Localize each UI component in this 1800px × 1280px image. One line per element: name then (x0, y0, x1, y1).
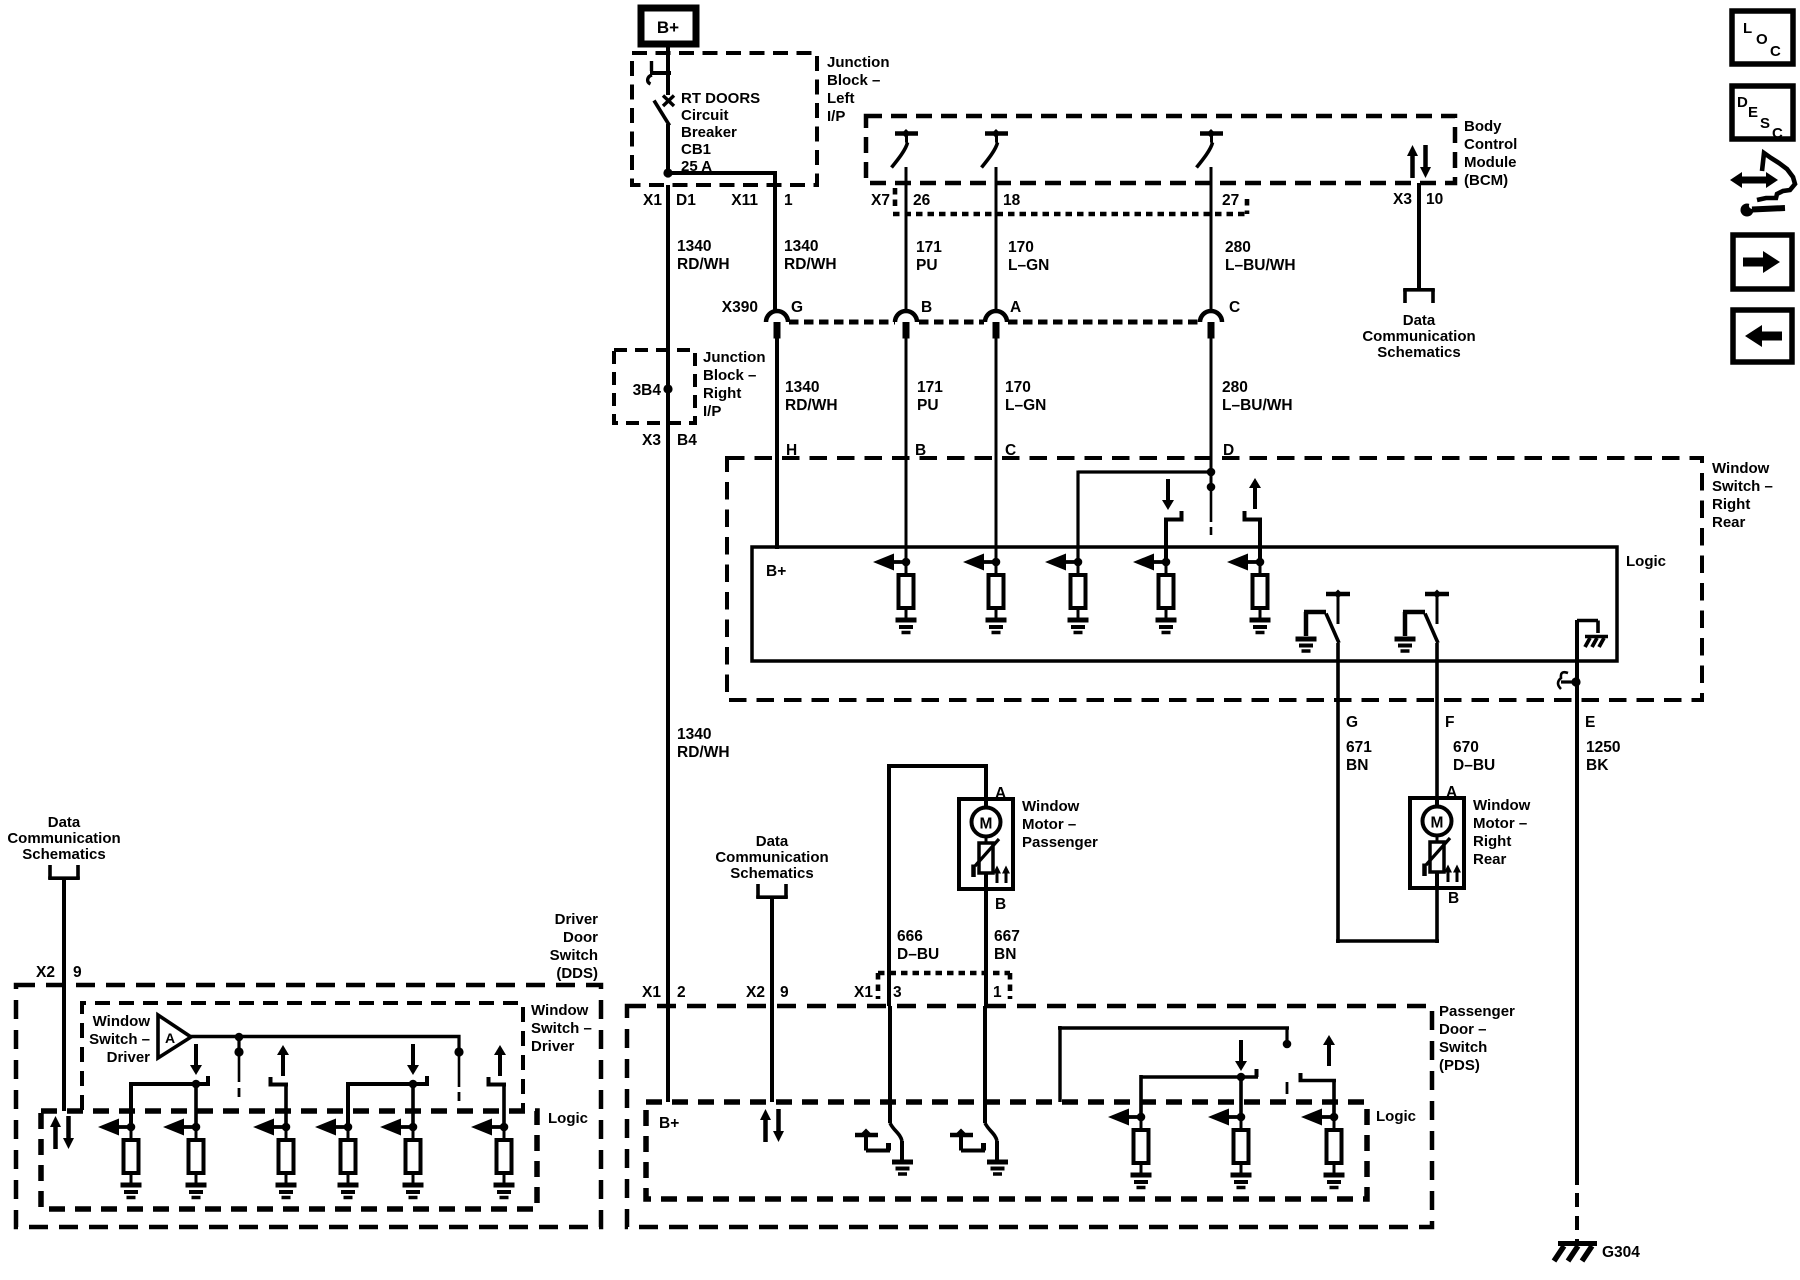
PDS connector labels X1 2 X2 9 X1 3 1 (642, 984, 1002, 1001)
window motor right rear (1410, 798, 1464, 888)
svg-text:Window: Window (93, 1013, 151, 1030)
label 671 BN (1346, 739, 1372, 774)
svg-text:Rear: Rear (1712, 514, 1746, 531)
resistor branch 2 (DDS) (163, 1119, 207, 1198)
wire B+ to circuit breaker CB1 (666, 44, 670, 95)
svg-text:Junction: Junction (703, 349, 766, 366)
svg-text:B4: B4 (677, 432, 697, 449)
wire 171 PU X390 B down (905, 338, 908, 562)
svg-text:B: B (921, 299, 932, 316)
svg-text:C: C (1770, 43, 1781, 60)
resistor branch 5 (DDS) (380, 1119, 424, 1198)
svg-text:PU: PU (916, 257, 938, 274)
svg-text:BN: BN (994, 946, 1016, 963)
off-page bracket serial data (1403, 289, 1435, 303)
data communication schematics (middle) (715, 833, 828, 882)
junction node in junction block (663, 168, 672, 177)
svg-text:Communication: Communication (1362, 328, 1475, 345)
wire 170 L-GN (BCM 18 to X390 A) (995, 167, 998, 312)
down arrow indicator 2 (DDS) (407, 1044, 419, 1075)
resistor branch 3 (PDS) (1301, 1109, 1345, 1188)
window up switch to ground (PDS) (855, 1123, 913, 1174)
chassis ground E inside logic (1577, 621, 1608, 648)
BCM label (1464, 118, 1517, 189)
connector X390 terminal B (895, 311, 917, 339)
svg-text:X390: X390 (722, 299, 758, 316)
svg-text:Junction: Junction (827, 54, 890, 71)
svg-text:Right: Right (1712, 496, 1750, 513)
svg-text:A: A (1446, 784, 1457, 801)
resistor branch 1 (PDS) (1108, 1109, 1152, 1188)
svg-text:X2: X2 (36, 964, 55, 981)
off-page bracket (middle) (756, 884, 788, 898)
svg-text:Door –: Door – (1439, 1021, 1487, 1038)
svg-text:Module: Module (1464, 154, 1517, 171)
svg-text:Switch –: Switch – (1712, 478, 1773, 495)
PDS logic label (1376, 1108, 1416, 1125)
svg-text:A: A (1010, 299, 1021, 316)
junction block right label (703, 349, 766, 420)
data communication schematics label (BCM) (1362, 312, 1475, 361)
svg-text:170: 170 (1008, 239, 1034, 256)
label 170 L-GN top (1008, 239, 1049, 274)
svg-text:Rear: Rear (1473, 851, 1507, 868)
svg-text:Passenger: Passenger (1022, 834, 1098, 851)
svg-text:Control: Control (1464, 136, 1517, 153)
DDS connector labels X2 9 (36, 964, 82, 981)
window switch right rear label (1712, 460, 1773, 531)
label 1340 RD/WH (left) (677, 238, 730, 273)
wire 1340 RD/WH X390 G to window switch H (775, 338, 779, 549)
label 1250 BK (1586, 739, 1620, 774)
data communication schematics (left) (7, 814, 120, 863)
svg-text:Schematics: Schematics (22, 846, 105, 863)
svg-text:X7: X7 (871, 192, 890, 209)
resistor branch B input (873, 554, 917, 633)
svg-text:Data: Data (48, 814, 81, 831)
connector X390 dotted line (789, 320, 1200, 325)
B+ battery feed box (641, 8, 696, 44)
svg-text:Window: Window (1473, 797, 1531, 814)
motor pin labels A B (passenger) (995, 785, 1006, 913)
tap node 1 on bus (234, 1033, 243, 1097)
svg-text:Schematics: Schematics (1377, 344, 1460, 361)
window switch driver label (left) (89, 1013, 150, 1066)
tap node 2 on bus (454, 1035, 463, 1101)
connector X390 terminal G (766, 311, 788, 339)
svg-text:9: 9 (73, 964, 82, 981)
connector X390 terminal A (985, 311, 1007, 339)
passenger door switch label (1439, 1003, 1515, 1074)
svg-text:X3: X3 (1393, 191, 1412, 208)
driver door switch dashed box (16, 985, 601, 1227)
svg-text:I/P: I/P (827, 108, 845, 125)
junction block right I/P dashed box (614, 350, 695, 423)
svg-text:C: C (1772, 125, 1783, 142)
svg-text:(PDS): (PDS) (1439, 1057, 1480, 1074)
svg-text:3: 3 (893, 984, 902, 1001)
svg-text:X11: X11 (731, 192, 758, 209)
svg-text:666: 666 (897, 928, 923, 945)
motor pin labels A B (right rear) (1446, 784, 1459, 907)
resistor branch 3 (DDS) (253, 1119, 297, 1198)
svg-text:Switch: Switch (1439, 1039, 1487, 1056)
svg-text:B+: B+ (659, 1115, 679, 1132)
label 1340 RD/WH (mid run) (677, 726, 730, 761)
switch to ground G output (1296, 590, 1351, 652)
wire branch to X11 pin 1 (668, 171, 775, 312)
pin labels X1 D1 X11 1 (643, 192, 793, 209)
ground G304 (1554, 1244, 1597, 1262)
svg-text:Driver: Driver (555, 911, 599, 928)
switch bar down 1 with taps (131, 1076, 210, 1127)
svg-text:X1: X1 (642, 984, 661, 1001)
DDS logic dashed box (41, 1111, 537, 1209)
svg-text:G304: G304 (1602, 1244, 1640, 1261)
wire CB1 output (666, 124, 670, 176)
BCM X7 connector dotted outline (893, 188, 1247, 214)
PDS feedback jog wire (1058, 1026, 1291, 1102)
svg-text:3B4: 3B4 (633, 382, 662, 399)
wire E out of logic (1575, 620, 1579, 700)
svg-text:Window: Window (1022, 798, 1080, 815)
svg-text:Window: Window (531, 1002, 589, 1019)
label 1340 RD/WH (second row) (785, 379, 838, 414)
resistor branch 2 (PDS) (1208, 1109, 1252, 1188)
nav icon next arrow (1733, 235, 1792, 289)
svg-text:Door: Door (563, 929, 598, 946)
svg-text:BK: BK (1586, 757, 1609, 774)
svg-text:RT DOORS: RT DOORS (681, 90, 760, 107)
svg-text:X1: X1 (854, 984, 873, 1001)
junction block left label (827, 54, 890, 125)
wire D jog to logic input (1078, 471, 1213, 563)
svg-text:B+: B+ (766, 563, 786, 580)
node D wire junction (1207, 468, 1216, 535)
up arrow indicator 1 (DDS) (277, 1045, 289, 1076)
svg-text:Motor –: Motor – (1022, 816, 1076, 833)
window down switch to ground (PDS) (950, 1123, 1008, 1174)
wire 1340 RD/WH long run to PDS (666, 385, 670, 1102)
svg-text:RD/WH: RD/WH (677, 744, 730, 761)
svg-text:1340: 1340 (677, 726, 711, 743)
nav icon back arrow (1733, 310, 1792, 362)
svg-text:Window: Window (1712, 460, 1770, 477)
svg-text:10: 10 (1426, 191, 1443, 208)
DDS logic label (548, 1110, 588, 1127)
svg-text:B+: B+ (657, 18, 679, 37)
svg-text:Logic: Logic (1626, 553, 1666, 570)
resistor branch 1 (DDS) (98, 1119, 142, 1198)
svg-text:Body: Body (1464, 118, 1502, 135)
svg-text:2: 2 (677, 984, 686, 1001)
up arrow window up indicator (1249, 478, 1261, 509)
svg-text:D–BU: D–BU (1453, 757, 1495, 774)
BCM serial data arrows (1407, 145, 1431, 178)
resistor branch C input (963, 554, 1007, 633)
svg-text:1250: 1250 (1586, 739, 1620, 756)
label 1340 RD/WH (X11 run) (784, 238, 837, 273)
svg-text:B: B (995, 896, 1006, 913)
svg-text:B: B (1448, 890, 1459, 907)
switch contact up 2 (DDS) (487, 1077, 507, 1127)
passenger door switch dashed box (627, 1006, 1432, 1227)
svg-text:X2: X2 (746, 984, 765, 1001)
switch contact bar with branch taps (PDS) (1141, 1069, 1258, 1117)
svg-text:1: 1 (784, 192, 793, 209)
svg-text:O: O (1756, 31, 1768, 48)
svg-text:26: 26 (913, 192, 931, 209)
pin labels X3 B4 (642, 432, 697, 449)
svg-text:1340: 1340 (677, 238, 711, 255)
svg-text:Schematics: Schematics (730, 865, 813, 882)
svg-text:Switch –: Switch – (531, 1020, 592, 1037)
resistor branch D input (1045, 554, 1089, 633)
svg-text:Block –: Block – (827, 72, 880, 89)
switch contact down (right rear) (1164, 511, 1184, 562)
label G304 (1602, 1244, 1640, 1261)
svg-text:1: 1 (993, 984, 1002, 1001)
bus wire from amplifier (191, 1035, 461, 1038)
svg-text:9: 9 (780, 984, 789, 1001)
svg-text:Switch –: Switch – (89, 1031, 150, 1048)
window motor right rear label (1473, 797, 1531, 868)
node 3B4 (633, 382, 673, 399)
svg-text:PU: PU (917, 397, 939, 414)
svg-text:A: A (995, 785, 1006, 802)
BCM output driver switch pin 26 (892, 129, 919, 168)
svg-text:L–GN: L–GN (1008, 257, 1049, 274)
svg-text:171: 171 (916, 239, 942, 256)
svg-text:670: 670 (1453, 739, 1479, 756)
nav icon DESC (1732, 86, 1793, 142)
svg-text:Motor –: Motor – (1473, 815, 1527, 832)
down arrow window down indicator (1162, 479, 1174, 510)
wire BCM X3-10 serial data (1417, 183, 1421, 289)
svg-text:D: D (1737, 94, 1748, 111)
svg-text:Breaker: Breaker (681, 124, 737, 141)
label 171 PU (second row) (917, 379, 943, 414)
svg-text:D1: D1 (676, 192, 696, 209)
svg-text:Communication: Communication (7, 830, 120, 847)
label 280 L-BU/WH top (1225, 239, 1296, 274)
svg-text:(BCM): (BCM) (1464, 172, 1508, 189)
window switch driver inner dashed box (82, 1003, 523, 1110)
up arrow indicator (PDS) (1323, 1035, 1335, 1066)
svg-text:X1: X1 (643, 192, 662, 209)
svg-text:X3: X3 (642, 432, 661, 449)
svg-text:Data: Data (1403, 312, 1436, 329)
svg-text:S: S (1760, 115, 1770, 132)
B+ label PDS (659, 1115, 679, 1132)
switch contact up (PDS) (1299, 1073, 1337, 1117)
svg-text:G: G (791, 299, 803, 316)
svg-text:671: 671 (1346, 739, 1372, 756)
svg-text:667: 667 (994, 928, 1020, 945)
label 170 L-GN (second row) (1005, 379, 1046, 414)
svg-text:1340: 1340 (784, 238, 818, 255)
resistor branch down switch (1133, 554, 1177, 633)
svg-text:L–BU/WH: L–BU/WH (1222, 397, 1293, 414)
junction block left I/P dashed box (632, 53, 817, 185)
nav icon schematic reference (arrow, outline, wrench) (1730, 153, 1795, 217)
wire 280 L-BU/WH X390 C down (1210, 338, 1213, 489)
svg-text:L: L (1743, 20, 1752, 37)
label 171 PU top (916, 239, 942, 274)
svg-text:Passenger: Passenger (1439, 1003, 1515, 1020)
logic label (1626, 553, 1666, 570)
svg-text:Data: Data (756, 833, 789, 850)
window switch driver label (right) (531, 1002, 592, 1055)
svg-text:CB1: CB1 (681, 141, 711, 158)
wire 170 L-GN X390 A down (995, 338, 998, 562)
connector X390 row labels (722, 299, 1240, 316)
circuit breaker CB1 label (681, 90, 760, 175)
svg-text:RD/WH: RD/WH (784, 256, 837, 273)
svg-text:27: 27 (1222, 192, 1239, 209)
BCM output driver switch pin 27 (1197, 129, 1224, 168)
switch contact up (right rear) (1243, 511, 1263, 562)
up arrow indicator 2 (DDS) (494, 1045, 506, 1076)
connector X1 dotted outline (PDS) (878, 973, 1010, 999)
svg-text:Switch: Switch (550, 947, 598, 964)
svg-text:D–BU: D–BU (897, 946, 939, 963)
wire serial data to PDS (770, 897, 774, 1102)
svg-text:18: 18 (1003, 192, 1021, 209)
off-page bracket (left) (48, 865, 80, 879)
svg-text:Driver: Driver (531, 1038, 575, 1055)
wire 666 into PDS switch (888, 1006, 892, 1123)
wire 280 L-BU/WH (BCM 27 to X390 C) (1210, 167, 1213, 312)
window switch right rear dashed box (727, 458, 1702, 700)
svg-text:E: E (1585, 714, 1595, 731)
svg-text:RD/WH: RD/WH (677, 256, 730, 273)
svg-text:Driver: Driver (107, 1049, 151, 1066)
wire motor B loop to G (1336, 888, 1439, 943)
down arrow indicator 1 (DDS) (190, 1044, 202, 1075)
logic box (right rear switch) (752, 547, 1617, 661)
B+ label right rear (766, 563, 786, 580)
svg-text:170: 170 (1005, 379, 1031, 396)
svg-text:Communication: Communication (715, 849, 828, 866)
pin labels G F E (1346, 714, 1595, 731)
svg-text:C: C (1229, 299, 1240, 316)
wire 667 BN motor B down (984, 889, 988, 1006)
label 667 BN (994, 928, 1020, 963)
svg-text:280: 280 (1222, 379, 1248, 396)
svg-text:Right: Right (1473, 833, 1511, 850)
PDS serial data arrows (760, 1109, 784, 1142)
svg-text:Logic: Logic (548, 1110, 588, 1127)
splice clip on wire E (1558, 672, 1581, 689)
switch bar down 2 with taps (348, 1076, 429, 1127)
window motor passenger (959, 799, 1013, 889)
label 666 D-BU (897, 928, 939, 963)
BCM connector labels X7 26 18 27 X3 10 (871, 191, 1443, 209)
svg-text:Left: Left (827, 90, 855, 107)
resistor branch up switch (1227, 554, 1271, 633)
svg-text:G: G (1346, 714, 1358, 731)
svg-text:Circuit: Circuit (681, 107, 729, 124)
svg-text:F: F (1445, 714, 1454, 731)
svg-text:A: A (165, 1030, 175, 1046)
label 670 D-BU (1453, 739, 1495, 774)
svg-text:RD/WH: RD/WH (785, 397, 838, 414)
wire G down (1336, 643, 1340, 943)
body control module dashed box (866, 116, 1455, 183)
wire 666 D-BU passenger motor loop (887, 764, 988, 1006)
switch to ground F output (1395, 590, 1450, 652)
svg-text:280: 280 (1225, 239, 1251, 256)
connector X390 terminal C (1200, 311, 1222, 339)
wire 667 into PDS switch (983, 1006, 987, 1123)
svg-text:BN: BN (1346, 757, 1368, 774)
wire F down to motor A (1435, 643, 1439, 799)
window motor passenger label (1022, 798, 1098, 851)
switch contact up 1 (DDS) (269, 1077, 289, 1127)
svg-text:Right: Right (703, 385, 741, 402)
nav icon LOC (1732, 11, 1793, 64)
svg-text:1340: 1340 (785, 379, 819, 396)
svg-text:Block –: Block – (703, 367, 756, 384)
BCM output driver switch pin 18 (982, 129, 1009, 168)
svg-text:(DDS): (DDS) (556, 965, 598, 982)
wire 171 PU (BCM 26 to X390 B) (905, 167, 908, 312)
svg-text:E: E (1748, 104, 1758, 121)
pin labels H B C D (786, 442, 1234, 459)
svg-text:I/P: I/P (703, 403, 721, 420)
DDS serial data arrows (50, 1116, 74, 1149)
PDS logic dashed box (646, 1102, 1367, 1199)
svg-text:L–BU/WH: L–BU/WH (1225, 257, 1296, 274)
driver door switch label (550, 911, 599, 982)
amplifier A (158, 1015, 191, 1058)
down arrow indicator (PDS) (1235, 1040, 1247, 1071)
wire serial data to DDS (62, 878, 66, 1111)
svg-text:171: 171 (917, 379, 943, 396)
svg-text:Logic: Logic (1376, 1108, 1416, 1125)
wire E long run to G304 (1575, 700, 1579, 1242)
circuit breaker CB1 symbol (648, 61, 674, 126)
wire 1340 RD/WH left run (X1 D1 down) (666, 185, 670, 385)
resistor branch 6 (DDS) (471, 1119, 515, 1198)
label 280 L-BU/WH (second row) (1222, 379, 1293, 414)
resistor branch 4 (DDS) (315, 1119, 359, 1198)
svg-text:L–GN: L–GN (1005, 397, 1046, 414)
